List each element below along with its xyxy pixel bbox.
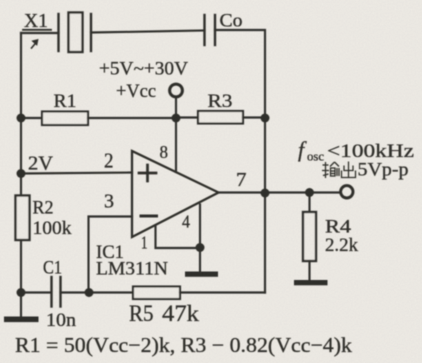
- node 2V: [17, 169, 26, 178]
- op-amp minus input mark: [141, 215, 157, 218]
- label Co: [220, 11, 243, 32]
- node R3 right: [261, 114, 270, 123]
- wire pin 1: [156, 226, 201, 249]
- label R5 47k: [129, 301, 200, 326]
- node R4 tap: [305, 188, 314, 197]
- node R1 left: [17, 114, 26, 123]
- label +5V~+30V: [99, 59, 188, 80]
- star mark: [32, 40, 38, 48]
- op-amp plus input mark: [139, 165, 156, 181]
- scan grain overlay: [0, 0, 1, 1]
- wire feedback rail: [264, 193, 266, 293]
- +Vcc terminal: [170, 84, 183, 97]
- wire pin 2: [21, 173, 132, 174]
- pin label 3: [104, 191, 114, 213]
- label 5Vp-p: [358, 161, 409, 181]
- wire Vcc terminal to node: [175, 97, 177, 118]
- resistor R3: [176, 111, 265, 124]
- label IC1: [96, 242, 124, 263]
- capacitor C1: [52, 277, 61, 307]
- op-amp IC1 triangle: [132, 151, 219, 237]
- label C1: [43, 258, 62, 279]
- wire pin 8: [175, 118, 177, 172]
- wire pin 3: [89, 217, 133, 293]
- wire right rail R3 node to output node: [264, 118, 266, 193]
- pin label 1: [141, 233, 148, 253]
- label 100k: [33, 218, 73, 239]
- caption formula: [15, 333, 353, 357]
- wire top left (rail to X1): [21, 32, 59, 34]
- wire node to ground: [199, 248, 201, 273]
- pin label 8: [160, 142, 169, 162]
- label X1: [24, 10, 48, 32]
- label R2: [33, 198, 54, 219]
- resistor R1: [21, 112, 176, 126]
- label 2V: [28, 153, 53, 175]
- wire Co to right rail corner: [215, 30, 265, 118]
- label output chinese 出: [342, 162, 356, 178]
- label R4: [325, 217, 352, 238]
- label fosc<100kHz: [298, 137, 414, 164]
- node C1 left: [17, 288, 26, 297]
- label R3: [208, 91, 233, 112]
- resistor R5: [89, 287, 265, 300]
- node output rail: [261, 189, 270, 198]
- wire pin 7 output: [219, 191, 340, 193]
- wire X1 to Co: [91, 31, 205, 33]
- wire C1 to node: [61, 291, 90, 293]
- resistor R4: [303, 193, 316, 282]
- pin label 2: [104, 149, 114, 173]
- label LM311N: [96, 259, 168, 280]
- pin label 7: [236, 169, 247, 191]
- label 10n: [46, 310, 77, 331]
- wire left rail: [20, 33, 22, 316]
- node Vcc junction: [172, 114, 181, 123]
- label 2.2k: [325, 235, 358, 256]
- wire pin 4: [199, 205, 201, 248]
- wire rail to C1: [21, 291, 51, 293]
- label R1: [54, 91, 77, 112]
- output terminal: [341, 186, 353, 198]
- label output chinese 输: [322, 162, 339, 178]
- capacitor Co: [205, 15, 216, 45]
- node pin1/pin4: [196, 243, 205, 252]
- node pin3/C1/R5: [85, 288, 94, 297]
- ground left: [4, 317, 39, 323]
- ground op-amp: [185, 272, 218, 277]
- pin label 4: [182, 212, 190, 232]
- crystal X1: [59, 13, 92, 53]
- resistor R2: [16, 196, 30, 241]
- label +Vcc: [116, 81, 156, 102]
- ground R4: [294, 280, 328, 285]
